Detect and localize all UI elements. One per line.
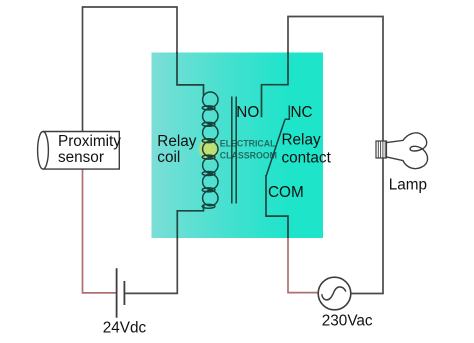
label: Lamp: [389, 177, 427, 194]
label: 230Vac: [322, 312, 373, 329]
proximity sensor (cylinder): [38, 132, 120, 170]
label: Proximity sensor: [58, 133, 121, 166]
svg-text:ELECTRICAL: ELECTRICAL: [220, 138, 276, 148]
wire: AC source to lamp (gray): [351, 158, 383, 294]
watermark text ELECTRICAL CLASSROOM: [220, 138, 277, 160]
svg-text:Relay: Relay: [157, 133, 196, 150]
svg-text:230Vac: 230Vac: [322, 312, 373, 329]
svg-text:Proximity: Proximity: [58, 133, 121, 150]
label: COM: [268, 184, 304, 201]
wire: right loop from NO feed top to lamp: [288, 17, 383, 142]
wire: red from COM exit to AC source: [288, 238, 318, 293]
wire: battery to relay coil bottom (gray): [124, 238, 177, 293]
svg-text:24Vdc: 24Vdc: [103, 320, 147, 337]
svg-text:Relay: Relay: [282, 132, 321, 149]
watermark logo circle: [197, 136, 220, 162]
relay contact arm (COM to NC): [266, 120, 285, 177]
svg-text:Lamp: Lamp: [389, 177, 427, 194]
battery B1 24Vdc plates: [117, 268, 125, 318]
svg-text:contact: contact: [282, 149, 332, 166]
wire: coil bottom feed inside relay box: [177, 206, 203, 239]
wire: left loop from proximity sensor top to relay box top: [83, 7, 178, 132]
svg-text:NO: NO: [236, 104, 259, 121]
relay body (teal box): [152, 53, 324, 239]
wire: NO feed inside relay box: [262, 52, 289, 117]
svg-text:coil: coil: [157, 149, 180, 166]
AC source 230Vac: [318, 277, 351, 310]
label: Relay contact: [282, 132, 332, 167]
label: NO: [236, 104, 259, 121]
relay coil L1 (7 turns): [202, 92, 218, 208]
label: Relay coil: [157, 133, 196, 166]
NC terminal: [285, 106, 290, 120]
label: 24Vdc: [103, 320, 147, 337]
wire: red from proximity sensor bottom to battery: [83, 169, 117, 293]
svg-text:sensor: sensor: [58, 149, 104, 166]
svg-text:COM: COM: [268, 184, 304, 201]
wire: coil top feed inside relay box: [177, 52, 204, 96]
label: NC: [291, 104, 313, 121]
wire: COM feed inside relay box: [266, 175, 288, 239]
relay core (two vertical lines): [232, 97, 236, 204]
svg-text:CLASSROOM: CLASSROOM: [220, 150, 277, 160]
svg-text:NC: NC: [291, 104, 313, 121]
lamp (bulb with screw base): [376, 133, 428, 169]
